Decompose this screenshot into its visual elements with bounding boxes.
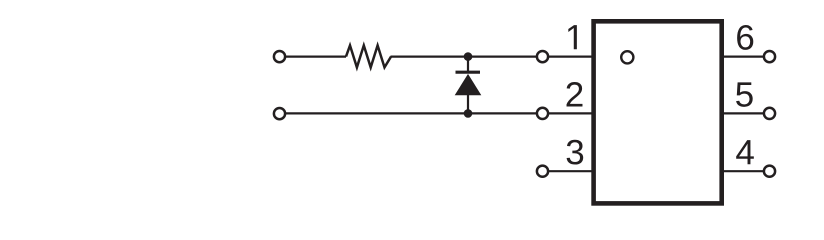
junction node bottom [464,109,473,118]
pin 2 label [567,82,583,106]
pin 1 terminal circle [537,51,548,62]
pin 1 wire [549,55,593,57]
terminal T1 (top-left input) [274,51,285,62]
pin 2 terminal circle [537,108,548,119]
pin 6 label [737,25,753,50]
pin 6 terminal circle [764,51,775,62]
diode D1 cathode bar [456,71,481,74]
junction node top [464,52,473,61]
pin 3 wire [549,170,593,172]
diode D1 cathode lead [467,57,469,71]
pin 4 terminal circle [764,166,775,177]
pin 1 indicator dot [621,51,633,63]
wire T1 to resistor [286,55,346,57]
diode D1 triangle [455,74,482,95]
resistor R1 [346,45,391,67]
pin 5 wire [722,112,763,114]
pin 1 label [568,25,577,49]
pin 6 wire [722,55,763,57]
wire resistor to pin1 terminal [391,55,537,57]
pin 2 wire [549,112,593,114]
diode D1 anode lead [467,95,469,114]
pin 5 label [736,82,753,106]
pin 3 terminal circle [537,166,548,177]
pin 4 wire [722,170,763,172]
terminal T2 (bottom-left input) [274,108,285,119]
pin 3 label [567,140,584,165]
wire T2 to pin2 terminal [286,112,536,114]
IC body U1 [594,21,722,203]
pin 5 terminal circle [764,108,775,119]
pin 4 label [736,140,754,164]
